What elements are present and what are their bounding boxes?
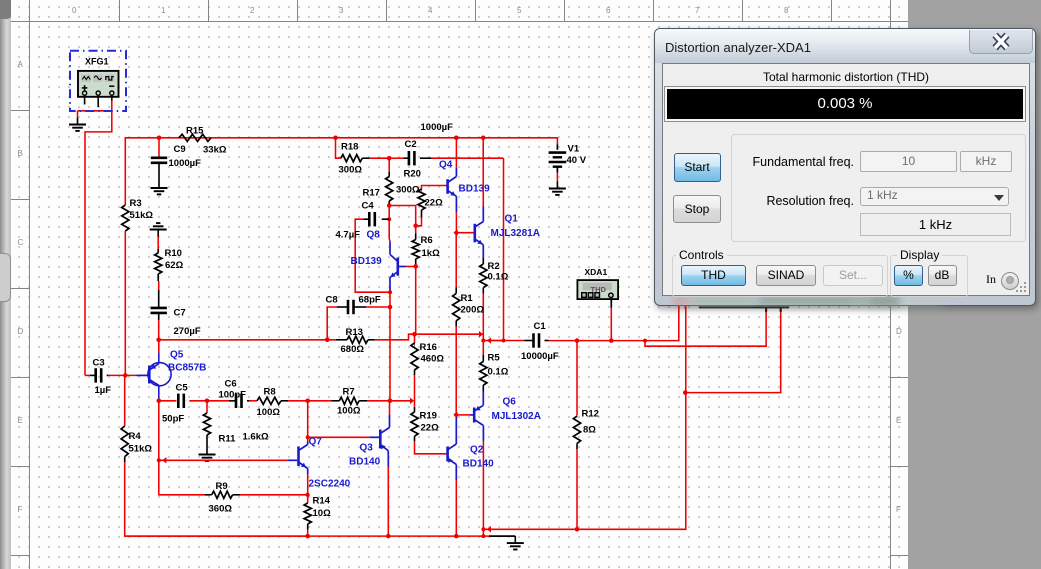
wire output line to analyzer taps	[549, 308, 679, 341]
node Q8 emitter / C4 / C8 junction	[388, 290, 393, 309]
svg-text:Q1: Q1	[505, 214, 519, 225]
schematic sheet background	[0, 0, 11, 569]
resistor R15	[179, 126, 227, 156]
node R14 ground junction	[305, 534, 310, 539]
instrument XDA1 icon	[577, 267, 618, 299]
svg-text:R10: R10	[165, 248, 182, 259]
wire Q4 emitter down to Q1 base node	[455, 196, 457, 232]
svg-text:C9: C9	[174, 144, 186, 155]
wire R4 to ground rail, left loop	[125, 462, 308, 536]
node Q4 collector riser junction	[454, 136, 459, 141]
svg-text:C7: C7	[174, 308, 186, 319]
resistor R7	[308, 387, 367, 417]
svg-text:68pF: 68pF	[359, 295, 381, 306]
svg-text:1kΩ: 1kΩ	[422, 248, 441, 259]
transistor Q6 MJL1302A	[474, 397, 541, 426]
svg-text:270µF: 270µF	[174, 326, 201, 337]
svg-text:Q2: Q2	[470, 445, 484, 456]
wire XFG1 output bus at top left	[85, 101, 112, 376]
node Q7 base-line junction	[157, 457, 167, 463]
wire V1 to ground	[556, 173, 558, 182]
node Q6 base / Q2 collector junction	[453, 412, 458, 418]
node R18/R17/C2 junction	[387, 156, 392, 161]
wire feedback line C7/Q5-emitter to R13	[159, 339, 336, 341]
ground below C9	[151, 181, 168, 194]
wire Q2 emitter down to ground rail	[455, 464, 457, 536]
svg-text:0.1Ω: 0.1Ω	[488, 272, 509, 283]
wire R17 bottom to R20 bottom corner	[389, 206, 416, 226]
svg-text:R3: R3	[130, 198, 142, 209]
node branch junction	[643, 339, 647, 343]
groups	[672, 255, 888, 297]
wire R13 to output node (feedback), with step	[375, 334, 480, 340]
node Q2 emitter ground junction	[454, 534, 459, 539]
resistor R20	[404, 169, 444, 226]
resistor R6	[412, 226, 440, 267]
svg-text:51kΩ: 51kΩ	[130, 210, 154, 221]
resistor R1	[453, 233, 485, 327]
svg-text:XFG1: XFG1	[85, 57, 109, 67]
wire Q3 base from Q7 collector line	[306, 435, 379, 439]
resistor R8	[257, 387, 289, 419]
wire Q1 emitter to R2	[482, 245, 484, 264]
svg-text:Q8: Q8	[367, 230, 381, 241]
node output: line2 junction	[481, 337, 491, 343]
svg-text:R8: R8	[264, 387, 276, 398]
node R8/R7/Q7-collector junction	[305, 399, 310, 404]
svg-text:R6: R6	[421, 235, 433, 246]
svg-text:BD140: BD140	[349, 457, 381, 468]
wire Q1 collector to rail	[482, 138, 484, 222]
node XDA1 tap junction	[609, 338, 614, 343]
svg-text:R16: R16	[420, 342, 437, 353]
wire V+ top rail	[125, 138, 557, 205]
svg-text:Q7: Q7	[309, 437, 323, 448]
svg-text:C8: C8	[326, 295, 338, 306]
node R12 tap junction	[575, 338, 580, 343]
wire R12 to speaker-return rail	[576, 449, 578, 529]
node R18 riser junction	[333, 136, 338, 141]
svg-text:1.6kΩ: 1.6kΩ	[243, 432, 269, 443]
node junction on long vertical	[683, 390, 688, 395]
svg-text:Q6: Q6	[503, 397, 517, 408]
capacitor C1	[521, 321, 559, 362]
wire Q4 collector to rail	[455, 138, 457, 177]
wire R16 to R19	[414, 375, 416, 407]
wire speaker-return rail	[483, 306, 685, 529]
resistor R11	[203, 401, 269, 448]
resistor R2	[480, 261, 509, 294]
capacitor C9	[151, 138, 201, 181]
node R12 bottom junction	[575, 527, 580, 532]
resistor R18	[339, 142, 370, 176]
node R6/R16 vertical crosses feedback line	[412, 332, 417, 337]
wire Q6 collector down to ground rail	[482, 425, 484, 536]
svg-text:R20: R20	[404, 169, 421, 180]
wire C5 to R11 node	[189, 400, 207, 402]
svg-text:R11: R11	[219, 434, 237, 445]
capacitor C4	[336, 201, 391, 293]
svg-text:360Ω: 360Ω	[209, 504, 233, 515]
wire R5 to Q6 emitter	[482, 391, 484, 405]
wire R17 node down to Q8 collector	[388, 206, 390, 239]
transistor Q1 MJL3281A	[456, 214, 540, 245]
transistor Q8 BD139	[351, 230, 416, 278]
svg-text:C5: C5	[176, 383, 189, 394]
ground above R10 (flipped)	[150, 223, 167, 236]
resistor R4	[121, 375, 152, 462]
svg-text:300Ω: 300Ω	[396, 185, 420, 196]
sheet border: top ruler row	[11, 21, 908, 22]
svg-text:R13: R13	[346, 327, 363, 338]
wire Q8 emitter node down to R7 node	[389, 307, 391, 401]
svg-text:R2: R2	[488, 261, 500, 272]
svg-text:R17: R17	[363, 188, 380, 199]
wire R9 to Q7 emitter node	[240, 494, 307, 496]
transistor Q7 2SC2240	[299, 437, 351, 490]
svg-text:MJL1302A: MJL1302A	[492, 411, 541, 422]
capacitor C7	[151, 290, 201, 337]
wire C2 right to bootstrap riser	[431, 157, 503, 159]
wire R11 node to C6	[207, 400, 234, 402]
transistor Q3 BD140	[349, 428, 390, 468]
black readout	[665, 87, 1025, 121]
svg-text:Q5: Q5	[170, 350, 184, 361]
capacitor C6	[219, 379, 247, 409]
wire R7 to Q3 collector node	[367, 400, 390, 402]
wire Q6 base to bias node	[456, 414, 474, 416]
wire Q5-collector node down to R9	[159, 460, 205, 495]
wire bootstrap riser down to output	[487, 158, 504, 340]
sheet border: right letter column	[890, 110, 908, 111]
svg-text:V1: V1	[568, 144, 580, 155]
battery V1 40V	[549, 144, 587, 173]
svg-text:51kΩ: 51kΩ	[129, 444, 153, 455]
wire R14 to ground rail	[307, 530, 309, 537]
node R3/R4 bias junction at Q5 base	[123, 373, 128, 378]
svg-text:R9: R9	[216, 481, 228, 492]
resistor R12	[573, 341, 599, 449]
wire Q7 base line from Q5 collector	[158, 401, 160, 461]
svg-text:R7: R7	[343, 387, 355, 398]
wire Q7 emitter down to R14	[307, 469, 309, 495]
node Q6 collector to ground rail junction	[481, 534, 485, 538]
svg-text:C4: C4	[362, 201, 375, 212]
node Q4 emitter / Q1 base / R1 junction	[453, 230, 458, 236]
svg-text:BC857B: BC857B	[168, 363, 206, 374]
svg-text:40 V: 40 V	[567, 155, 587, 166]
svg-text:C3: C3	[93, 358, 105, 369]
svg-text:R19: R19	[420, 411, 437, 422]
svg-text:R14: R14	[313, 496, 331, 507]
freq group	[731, 134, 1026, 242]
wire Q5 collector down to VAS line	[158, 385, 160, 400]
svg-text:BD139: BD139	[351, 256, 383, 267]
wire Q7 collector up to R8/R7 node	[307, 401, 309, 445]
wire R19 to Q2 base	[415, 441, 447, 454]
svg-text:R4: R4	[129, 431, 142, 442]
svg-text:22Ω: 22Ω	[425, 198, 444, 209]
svg-text:MJL3281A: MJL3281A	[491, 228, 540, 239]
svg-text:10000µF: 10000µF	[521, 351, 559, 362]
svg-text:22Ω: 22Ω	[421, 423, 440, 434]
wire Q5 emitter up to C7 node	[158, 340, 160, 364]
transistor Q4 BD139	[439, 160, 490, 197]
ground at bottom rail	[507, 536, 524, 549]
svg-text:Q3: Q3	[360, 443, 374, 454]
node R7/Q3-collector/Q8-emitter-line junction	[388, 399, 393, 404]
wire output node to C1	[483, 340, 524, 342]
node feedback line joins output riser	[479, 331, 483, 337]
svg-text:62Ω: 62Ω	[165, 260, 184, 271]
ground below V1	[549, 182, 566, 195]
wire Q7 base line	[159, 459, 299, 461]
wire to R16/R19 bias chain	[390, 400, 410, 402]
wire Q8 emitter down to C8 node	[389, 278, 391, 308]
svg-text:BD139: BD139	[459, 184, 491, 195]
sheet border: left letter column	[11, 110, 29, 111]
resistor R3	[122, 198, 154, 231]
resistor R19	[411, 407, 439, 441]
capacitor C3	[85, 358, 111, 397]
svg-text:10Ω: 10Ω	[313, 508, 332, 519]
node Q1 collector riser junction	[481, 136, 486, 141]
node Q3 emitter ground junction	[386, 534, 391, 539]
svg-text:300Ω: 300Ω	[339, 165, 363, 176]
svg-text:50pF: 50pF	[162, 414, 184, 425]
wire branch to hidden instrument terminal	[645, 312, 766, 347]
svg-text:C2: C2	[405, 139, 417, 150]
svg-text:100pF: 100pF	[219, 390, 247, 401]
transistor Q5 BC857B	[137, 350, 207, 386]
svg-text:R18: R18	[341, 142, 358, 153]
ground for XFG1	[69, 118, 86, 131]
node bootstrap riser junction on output line	[502, 339, 506, 343]
svg-text:460Ω: 460Ω	[421, 354, 445, 365]
node speaker-return rail joins Q6 collector line	[481, 526, 491, 532]
wire rail to R18	[336, 138, 341, 158]
wire C3 to Q5 base	[108, 374, 136, 376]
capacitor C8	[326, 295, 391, 340]
wire R8 to Q7 collector node	[288, 400, 308, 402]
wire C7 to emitter node	[158, 320, 160, 340]
svg-text:R15: R15	[186, 126, 204, 137]
svg-text:1µF: 1µF	[95, 385, 112, 396]
resistor R10	[155, 248, 184, 281]
node bias chain junction arrow	[410, 398, 414, 404]
hidden instrument icon edge below dialog	[679, 305, 789, 312]
resistor R17	[363, 158, 420, 204]
wire R1 bottom down to Q6 base node (crosses feedback line)	[455, 326, 457, 415]
node Q7 emitter / R9 / R14 junction	[304, 492, 309, 498]
svg-text:R5: R5	[488, 353, 501, 364]
svg-text:BD140: BD140	[463, 459, 495, 470]
node R11 junction	[205, 399, 210, 404]
wire VAS signal line y=401	[159, 400, 177, 402]
svg-text:R12: R12	[582, 409, 599, 420]
resistor R14	[304, 495, 331, 530]
instrument XFG1 icon	[78, 57, 119, 108]
ground below R11	[199, 448, 216, 461]
wire hidden instrument right terminal down	[685, 312, 780, 393]
node C9 to rail junction	[157, 136, 162, 141]
node C8 riser junction on R13 line	[325, 338, 330, 343]
svg-text:100Ω: 100Ω	[257, 407, 281, 418]
node R20/R6 junction	[413, 224, 418, 229]
Distortion analyzer dialog	[654, 28, 1036, 306]
svg-text:C6: C6	[225, 379, 237, 390]
svg-text:C1: C1	[534, 321, 547, 332]
svg-text:100Ω: 100Ω	[337, 406, 361, 417]
svg-text:33kΩ: 33kΩ	[203, 145, 227, 156]
node R17 bottom junction	[387, 203, 392, 208]
wire Q4 base from R20 top	[422, 186, 448, 191]
node Q5 emitter / C7 / R13 junction	[156, 338, 161, 343]
svg-text:8Ω: 8Ω	[583, 425, 596, 436]
svg-text:1000µF: 1000µF	[421, 122, 454, 133]
wire Q2 collector up to Q6 base node	[455, 417, 457, 444]
svg-text:0.1Ω: 0.1Ω	[488, 367, 509, 378]
wire R18 to R17/C2 node	[369, 157, 389, 159]
wire ground rail at bottom	[125, 535, 516, 537]
resistor R5	[480, 352, 509, 391]
resistor R13	[336, 327, 375, 355]
svg-text:XDA1: XDA1	[585, 267, 608, 277]
resistor R16	[411, 342, 444, 375]
wire XDA1 terminal lead	[610, 298, 612, 341]
svg-text:1000µF: 1000µF	[169, 158, 202, 169]
svg-text:680Ω: 680Ω	[341, 344, 365, 355]
svg-text:4.7µF: 4.7µF	[336, 230, 361, 241]
wire R10 to C7	[158, 281, 160, 290]
node C4 right junction	[387, 217, 391, 221]
client area	[662, 63, 1030, 296]
wire gnd to R10	[157, 237, 159, 250]
wire C6 to R8	[247, 400, 257, 402]
svg-text:R1: R1	[461, 293, 474, 304]
capacitor C5	[162, 383, 188, 425]
svg-text:Q4: Q4	[439, 160, 453, 171]
node Q5 collector junction	[157, 399, 162, 404]
wire R2 to output node	[482, 294, 484, 352]
close button	[969, 30, 1033, 54]
wire Q3 emitter down to ground rail	[387, 451, 389, 536]
transistor Q2 BD140	[446, 444, 494, 470]
wire R6 node down to feedback crossing and R16	[415, 266, 416, 343]
wire R3 to Q5 base node	[124, 231, 126, 375]
wire XFG1 ground link	[78, 111, 112, 118]
svg-text:200Ω: 200Ω	[461, 305, 485, 316]
selection box around XFG1	[70, 51, 126, 111]
resistor R9	[205, 481, 240, 515]
node R6/Q8 base junction	[413, 264, 418, 269]
resize grip	[1014, 280, 1028, 294]
svg-text:2SC2240: 2SC2240	[309, 479, 351, 490]
capacitor C2	[389, 122, 453, 165]
wire Q3 collector up to R7 node	[389, 401, 391, 428]
